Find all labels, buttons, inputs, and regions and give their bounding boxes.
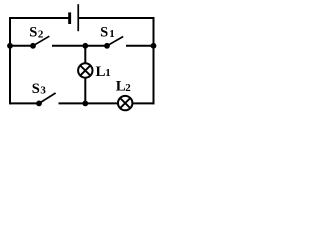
svg-text:3: 3 — [40, 84, 46, 96]
svg-text:S: S — [100, 25, 108, 41]
svg-text:1: 1 — [109, 28, 115, 40]
svg-text:S: S — [29, 25, 37, 41]
svg-text:2: 2 — [125, 82, 131, 94]
svg-text:L: L — [116, 79, 126, 95]
svg-text:1: 1 — [105, 67, 111, 79]
svg-text:L: L — [96, 64, 106, 80]
svg-text:2: 2 — [38, 28, 44, 40]
svg-text:S: S — [32, 81, 40, 97]
